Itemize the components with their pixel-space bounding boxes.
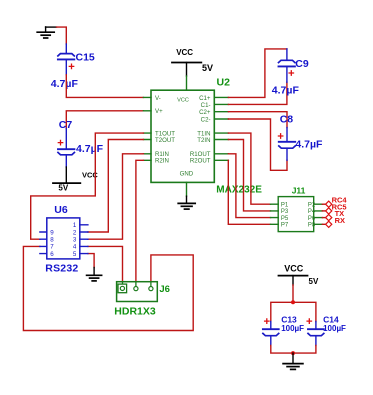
junction dot bottom: [291, 351, 295, 355]
svg-text:T2IN: T2IN: [197, 137, 210, 144]
U2 pin VCC (top): [186, 76, 188, 90]
wire to RC4 diamond: [322, 203, 325, 205]
svg-text:VCC: VCC: [284, 263, 304, 273]
svg-text:P7: P7: [281, 223, 289, 229]
svg-text:100µF: 100µF: [281, 324, 304, 333]
U6 pin stubs left (9,8,7,6): [40, 232, 47, 254]
wire C1+ to C9 top: [228, 49, 287, 98]
svg-text:4: 4: [73, 244, 77, 251]
ground (U6 pin5): [87, 268, 102, 281]
off-page connector RX diamond: [326, 221, 332, 227]
J6 pin2 circle: [134, 287, 138, 291]
wire C2- to C8 bottom: [228, 119, 287, 170]
svg-text:3: 3: [73, 237, 77, 244]
svg-text:J11: J11: [292, 185, 306, 195]
svg-text:MAX232E: MAX232E: [216, 185, 262, 196]
wire U2 V+ to C7 top: [66, 111, 143, 129]
IC U2 MAX232E body: [151, 90, 214, 182]
svg-text:5V: 5V: [202, 63, 213, 73]
svg-text:U6: U6: [54, 204, 68, 216]
wire C1- to C9 bottom: [228, 82, 287, 104]
wire R2IN to J6 pin2: [136, 160, 144, 281]
wire VCC to C13/C14 top rail: [271, 285, 316, 322]
off-page connector RC5 diamond: [326, 208, 332, 214]
ground (top left): [37, 27, 54, 38]
wire T1OUT to U6 pin8: [31, 133, 144, 239]
svg-text:1: 1: [73, 222, 77, 229]
power VCC 5V (bottom right): [279, 276, 308, 285]
svg-text:4.7µF: 4.7µF: [51, 78, 79, 90]
svg-text:C1-: C1-: [201, 102, 211, 109]
power VCC 5V (below C7, bar style): [53, 167, 80, 183]
capacitor C15: [58, 44, 74, 75]
svg-text:8: 8: [50, 237, 54, 244]
U2 inner pin labels: [155, 95, 211, 178]
wire T1IN to J11 P1: [228, 133, 270, 204]
J6 pin3 circle: [149, 287, 153, 291]
plus mark C14: [307, 319, 311, 323]
svg-text:C2+: C2+: [199, 109, 211, 116]
svg-text:T2OUT: T2OUT: [155, 137, 175, 144]
plus mark C7: [58, 140, 62, 144]
svg-text:C1+: C1+: [199, 95, 211, 102]
plus mark C15: [69, 64, 73, 68]
svg-text:C8: C8: [280, 114, 294, 126]
wire to RX diamond: [322, 223, 325, 225]
capacitor C8: [279, 128, 295, 161]
svg-text:VCC: VCC: [176, 48, 193, 57]
svg-text:GND: GND: [180, 171, 194, 178]
svg-text:5V: 5V: [309, 277, 319, 286]
svg-text:5V: 5V: [58, 184, 68, 193]
wire U6 pin7 to J6 pin3 (big loop): [23, 246, 193, 330]
wire ground to C15 top: [57, 27, 67, 44]
wire T2IN to J11 P3: [228, 140, 270, 211]
svg-text:P6: P6: [308, 216, 316, 222]
svg-text:2: 2: [73, 229, 77, 236]
svg-text:P8: P8: [308, 223, 316, 229]
wire C2+ to C8 top: [228, 112, 287, 128]
svg-text:RX: RX: [335, 216, 345, 225]
svg-text:VCC: VCC: [177, 98, 189, 104]
svg-text:P2: P2: [308, 202, 316, 208]
svg-text:P3: P3: [281, 209, 289, 215]
svg-text:7: 7: [50, 244, 54, 251]
wire U6 pin4 to J6 pin1: [88, 246, 123, 281]
svg-text:R2OUT: R2OUT: [190, 158, 211, 165]
capacitor C9: [279, 49, 295, 82]
svg-text:P4: P4: [308, 209, 316, 215]
J6 pin stubs: [123, 282, 151, 287]
J11 pin stubs left: [271, 204, 279, 224]
header J6 HDR1X3 body: [117, 282, 158, 302]
svg-text:R2IN: R2IN: [155, 158, 169, 165]
wire to TX diamond: [322, 217, 325, 219]
wire T2OUT to U6 pin2: [88, 140, 143, 233]
connector U6 RS232 body: [47, 218, 80, 259]
U2 pin stubs left: [143, 97, 151, 160]
connector J11 body: [278, 197, 314, 232]
wire R1IN to U6 pin3: [88, 154, 143, 239]
svg-text:100µF: 100µF: [323, 324, 346, 333]
ground (below U2): [178, 196, 195, 209]
plus mark C8: [278, 134, 282, 138]
off-page connector TX diamond: [326, 215, 332, 221]
svg-text:HDR1X3: HDR1X3: [114, 305, 156, 317]
J11 pin stubs right: [314, 204, 323, 224]
junction dot top: [291, 300, 295, 304]
U2 pin GND (bottom): [186, 182, 188, 196]
plus mark C9: [289, 71, 293, 75]
capacitor C14: [308, 322, 324, 346]
svg-text:4.7µF: 4.7µF: [76, 143, 104, 155]
J11 pin labels: [281, 202, 316, 228]
U6 pin stubs right (1..5): [80, 225, 88, 254]
capacitor C7: [58, 129, 74, 168]
svg-text:6: 6: [50, 251, 54, 258]
svg-text:RS232: RS232: [45, 262, 78, 274]
svg-text:V+: V+: [155, 108, 163, 115]
off-page connector RC4 diamond: [326, 201, 332, 207]
U2 pin stubs right: [214, 97, 228, 160]
wire ground to C15 top (black part): [46, 26, 57, 28]
svg-text:5: 5: [73, 251, 77, 258]
svg-text:P5: P5: [281, 216, 289, 222]
capacitor C13: [263, 322, 279, 346]
svg-text:J6: J6: [159, 284, 170, 295]
wire to RC5 diamond: [322, 210, 325, 212]
svg-text:9: 9: [50, 229, 54, 236]
power VCC 5V (above U2): [172, 63, 201, 77]
svg-text:4.7µF: 4.7µF: [272, 84, 300, 96]
wire R1OUT to J11 P5: [228, 154, 270, 218]
svg-text:P1: P1: [281, 202, 289, 208]
wire R2OUT to J11 P7: [228, 160, 270, 224]
svg-text:C9: C9: [295, 58, 309, 70]
wire C13/C14 bottom rail: [271, 346, 316, 354]
J6 pin1 square: [118, 284, 127, 293]
svg-text:C7: C7: [59, 119, 73, 131]
ground (bottom right): [283, 353, 303, 369]
plus mark C13: [265, 319, 269, 323]
svg-text:4.7µF: 4.7µF: [295, 139, 323, 151]
svg-text:C15: C15: [76, 52, 95, 64]
J6 pin1 circle: [120, 286, 124, 290]
wire C15 bottom to U2 V-: [66, 75, 143, 98]
U6 pin numbers: [50, 222, 77, 258]
svg-text:V-: V-: [155, 95, 161, 102]
svg-text:U2: U2: [217, 77, 231, 89]
svg-text:C2-: C2-: [201, 116, 211, 123]
wire U6 pin5 to ground: [88, 254, 94, 268]
